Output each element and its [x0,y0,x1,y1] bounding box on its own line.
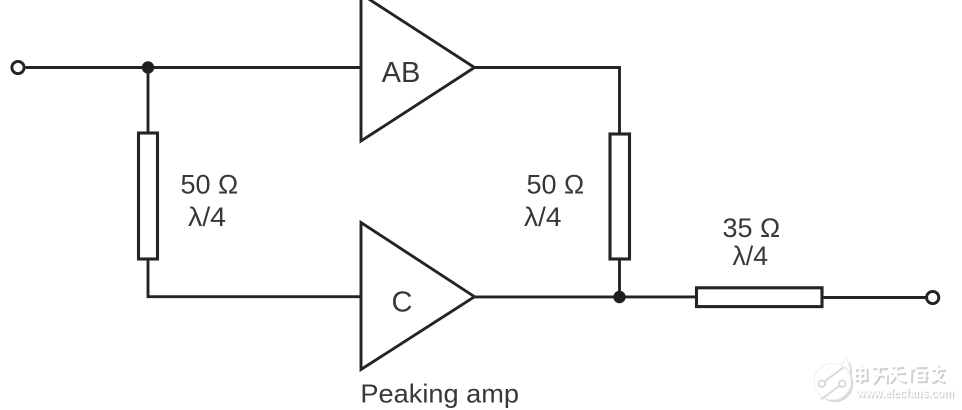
svg-text:50 Ω: 50 Ω [181,170,239,200]
wire 35-ohm line to output terminal [822,296,926,299]
wire junction down to left 50-ohm line [147,68,150,134]
transmission line Z2 50-ohm quarter-wave (right) [610,134,630,259]
wire input to AB amp [26,66,361,69]
svg-text:50 Ω: 50 Ω [527,170,585,200]
wire right 50-ohm line down to output node [618,259,621,297]
watermark text dianzifashaoyou [855,365,945,384]
svg-text:AB: AB [382,57,421,89]
svg-text:35 Ω: 35 Ω [723,213,781,243]
svg-text:λ/4: λ/4 [733,241,769,271]
svg-text:C: C [392,287,413,319]
amplifier AB (carrier amp) [361,0,475,141]
amplifier C (peaking amp) [361,223,475,370]
svg-text:Peaking amp: Peaking amp [360,379,519,409]
svg-text:λ/4: λ/4 [524,202,562,232]
svg-text:λ/4: λ/4 [188,202,226,232]
watermark logo elecfans [814,357,853,402]
wire left 50-ohm line to C amp input [148,259,361,297]
wire C output to summing node [475,295,697,298]
output terminal [927,291,939,303]
transmission line Z3 35-ohm quarter-wave (output) [697,288,823,307]
watermark url www.elecfans.com [856,385,955,402]
transmission line Z1 50-ohm quarter-wave (left) [139,133,158,259]
svg-text:www.elecfans.com: www.elecfans.com [856,385,954,400]
junction output node [613,291,625,303]
junction input node [142,61,154,73]
input terminal [12,61,24,73]
wire AB output to right 50-ohm line [475,68,620,135]
